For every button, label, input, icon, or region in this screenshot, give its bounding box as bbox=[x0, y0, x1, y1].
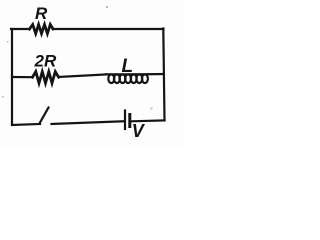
svg-text:L: L bbox=[122, 56, 134, 77]
svg-text:V: V bbox=[132, 121, 146, 141]
svg-text:R: R bbox=[35, 4, 48, 23]
svg-text:2R: 2R bbox=[34, 52, 57, 71]
